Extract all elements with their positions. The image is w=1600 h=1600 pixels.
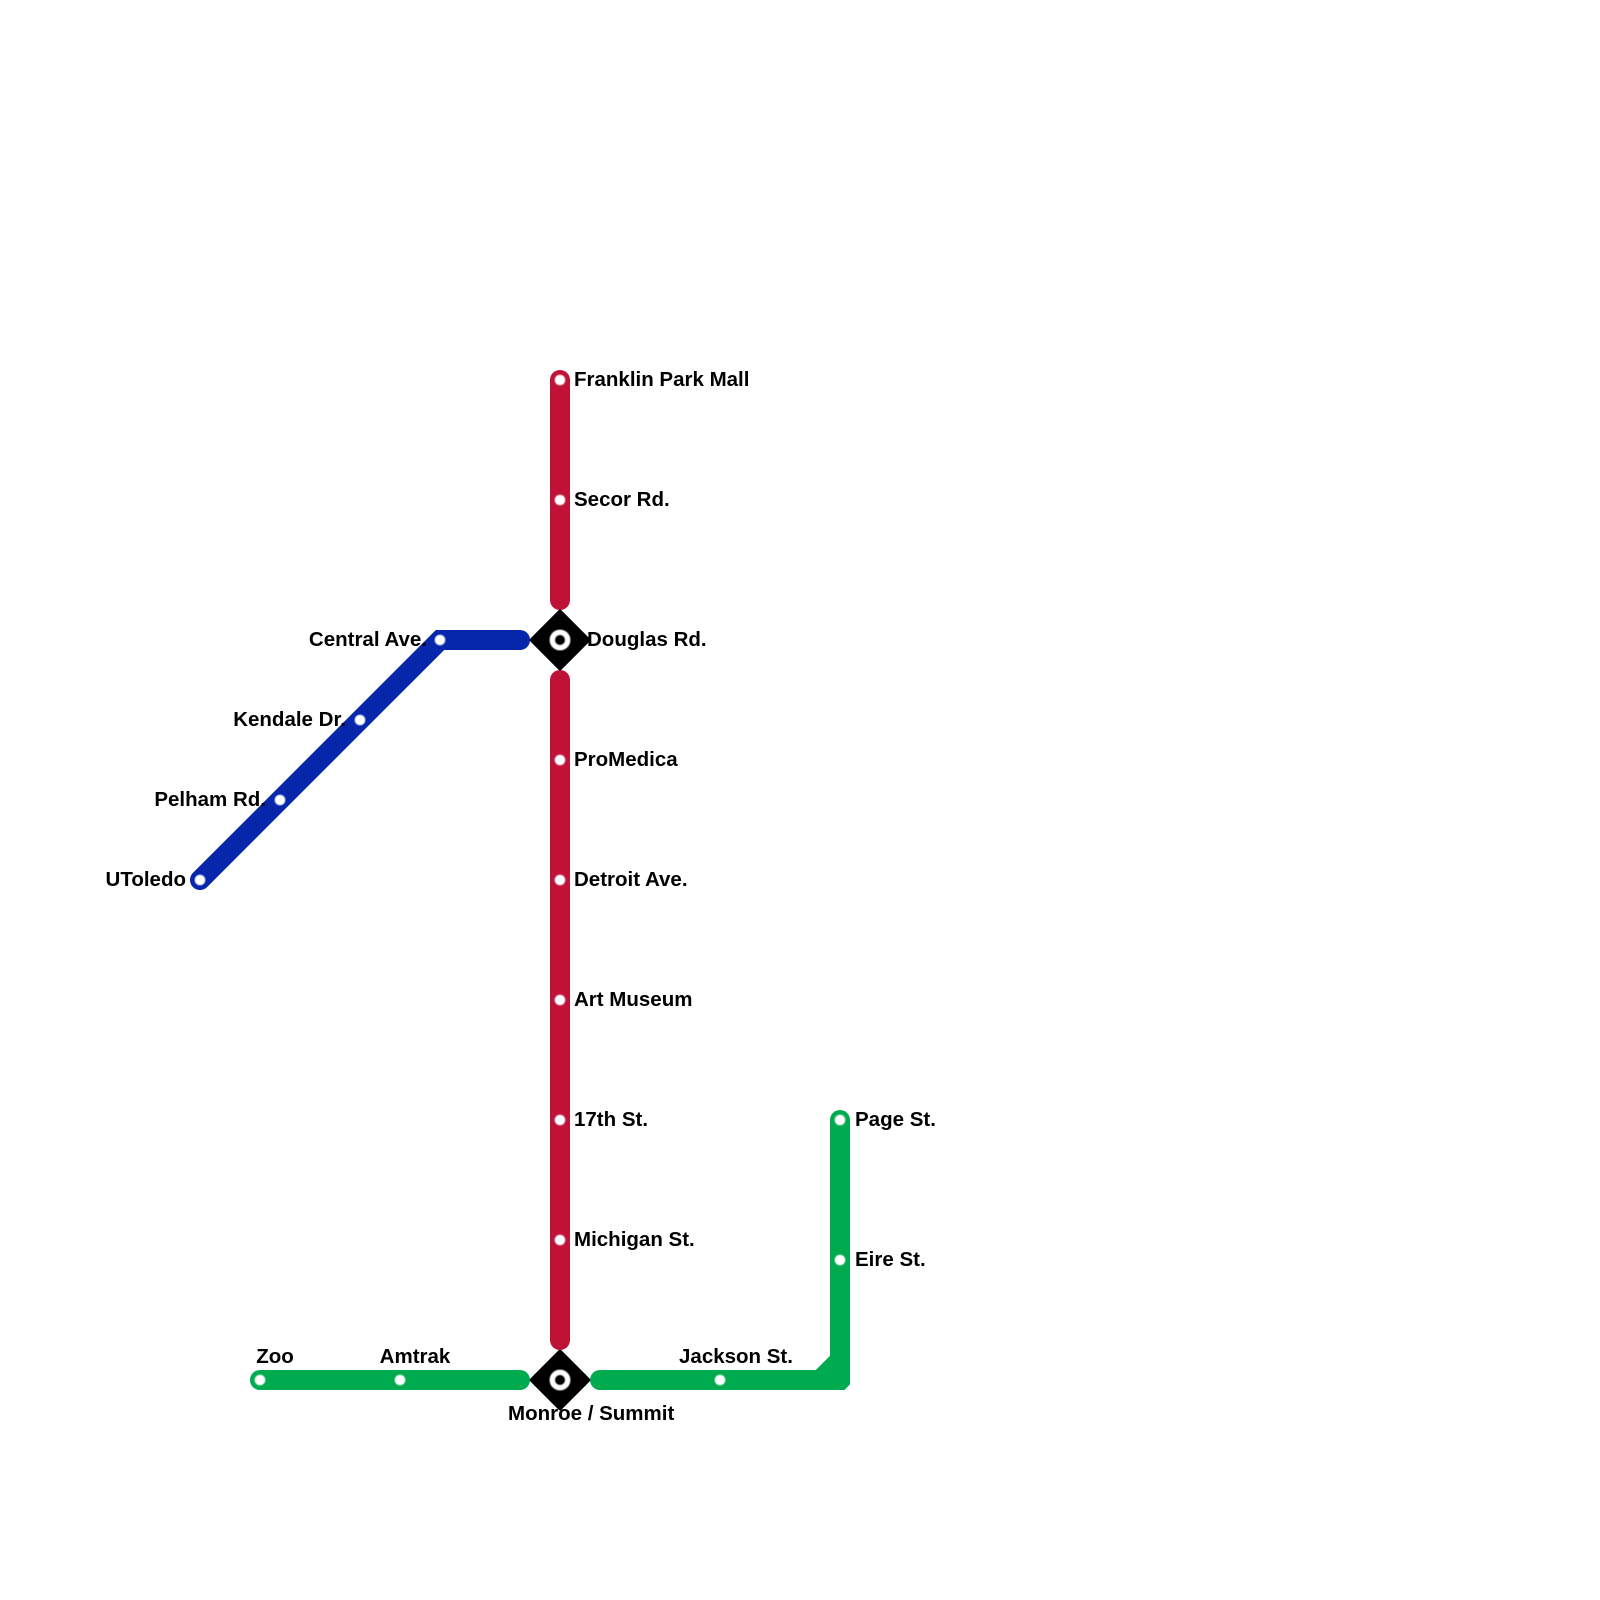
red line upper segment Franklin Park Mall to Douglas Rd. <box>550 380 570 600</box>
svg-text:Kendale Dr.: Kendale Dr. <box>233 708 346 731</box>
svg-text:Jackson St.: Jackson St. <box>679 1345 793 1368</box>
interchange Monroe / Summit black diamond <box>529 1349 591 1411</box>
svg-text:Secor Rd.: Secor Rd. <box>574 488 670 511</box>
station dot Kendale Dr. <box>355 715 366 726</box>
blue line UToledo to Douglas Rd. <box>200 640 520 880</box>
station dot ProMedica <box>555 755 566 766</box>
station dot Zoo <box>255 1375 266 1386</box>
svg-text:Zoo: Zoo <box>256 1345 294 1368</box>
interchange Douglas Rd. white ring <box>552 632 567 647</box>
red line lower segment Douglas Rd. to Monroe / Summit <box>550 680 570 1340</box>
svg-text:Monroe / Summit: Monroe / Summit <box>508 1402 674 1425</box>
svg-text:Douglas Rd.: Douglas Rd. <box>587 628 707 651</box>
svg-text:ProMedica: ProMedica <box>574 748 678 771</box>
green line west segment Zoo to Monroe / Summit <box>260 1370 520 1390</box>
svg-text:Art Museum: Art Museum <box>574 988 692 1011</box>
station dot 17th St. <box>555 1115 566 1126</box>
svg-text:Eire St.: Eire St. <box>855 1248 926 1271</box>
svg-text:Page St.: Page St. <box>855 1108 936 1131</box>
green line east segment Monroe / Summit to Page St. <box>600 1120 840 1380</box>
svg-text:UToledo: UToledo <box>106 868 186 891</box>
station dot Page St. <box>835 1115 846 1126</box>
interchange Monroe / Summit white ring <box>552 1372 567 1387</box>
svg-text:Detroit Ave.: Detroit Ave. <box>574 868 688 891</box>
svg-text:Central Ave.: Central Ave. <box>309 628 427 651</box>
green corner small white chamfer <box>845 1384 850 1390</box>
station dot Amtrak <box>395 1375 406 1386</box>
station dot Secor Rd. <box>555 495 566 506</box>
svg-text:Franklin Park Mall: Franklin Park Mall <box>574 368 749 391</box>
station dot Pelham Rd. <box>275 795 286 806</box>
station dot Jackson St. <box>715 1375 726 1386</box>
svg-text:17th St.: 17th St. <box>574 1108 648 1131</box>
svg-text:Amtrak: Amtrak <box>380 1345 451 1368</box>
station dot Franklin Park Mall <box>555 375 566 386</box>
svg-text:Michigan St.: Michigan St. <box>574 1228 695 1251</box>
interchange Douglas Rd. black diamond <box>529 609 591 671</box>
station dot UToledo <box>195 875 206 886</box>
green corner outer fill <box>820 1360 850 1390</box>
station dot Art Museum <box>555 995 566 1006</box>
station dot Central Ave. <box>435 635 446 646</box>
station dot Detroit Ave. <box>555 875 566 886</box>
station dot Michigan St. <box>555 1235 566 1246</box>
station dot Eire St. <box>835 1255 846 1266</box>
svg-text:Pelham Rd.: Pelham Rd. <box>154 788 266 811</box>
